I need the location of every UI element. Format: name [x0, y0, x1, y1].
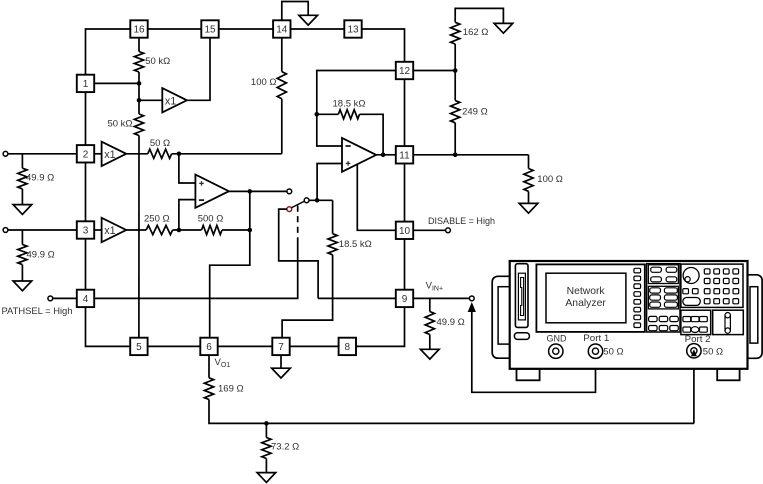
wire pin6 to 169ohm — [208, 355, 210, 378]
wire top-left corner: pin 1 bus to pin 16 — [86, 29, 131, 75]
svg-text:100 Ω: 100 Ω — [537, 174, 563, 185]
ground (100ohm load) — [519, 203, 538, 213]
wire feedback right to output — [360, 114, 384, 155]
button below floppy — [514, 333, 529, 340]
svg-text:Port 2: Port 2 — [685, 334, 711, 344]
node J (249/pin11) — [453, 153, 458, 158]
wire 100ohm load riser — [528, 155, 530, 169]
wire 73.2 stems — [265, 423, 267, 472]
wire left bus pin3-pin4 — [85, 239, 87, 290]
svg-text:x1: x1 — [104, 149, 115, 161]
wire pin7 to ground — [280, 355, 282, 368]
svg-text:16: 16 — [133, 25, 145, 36]
wire right bus pin12-pin11 — [404, 79, 406, 146]
wire pole to 18.5k corner — [309, 199, 333, 201]
switch linkage dashed — [297, 206, 299, 239]
label 50ohm — [150, 138, 170, 149]
svg-text:49.9 Ω: 49.9 Ω — [26, 173, 54, 184]
knob — [683, 268, 699, 284]
label PATHSEL = High — [2, 306, 73, 317]
svg-text:50 Ω: 50 Ω — [703, 346, 723, 357]
label 18.5kohm feedback — [333, 98, 366, 109]
pin box 8 — [339, 338, 356, 355]
wire 100ohm to pin14 — [281, 38, 283, 72]
resistor R 49.9ohm vin — [425, 312, 434, 335]
wire pin12 to node — [413, 70, 455, 72]
pin box 16 — [130, 20, 147, 37]
wire 50ohm to 100ohm corner — [172, 153, 282, 155]
pin box 4 — [77, 290, 94, 307]
left button column frame — [647, 264, 680, 332]
button group B frame — [648, 286, 678, 309]
network analyzer left foot — [517, 369, 540, 381]
label 18.5kohm lower — [339, 239, 372, 250]
wire 49.9 vin to ground — [429, 335, 431, 350]
pin box 7 — [272, 338, 289, 355]
buffer U2 x1 — [102, 142, 127, 166]
wire 100ohm load to ground — [528, 191, 530, 203]
svg-text:100 Ω: 100 Ω — [251, 77, 277, 88]
resistor R 249ohm — [451, 101, 460, 123]
svg-text:13: 13 — [347, 25, 359, 36]
terminal switch throw 1 (U4 out) — [287, 189, 292, 194]
Port 1 connector — [588, 344, 602, 358]
svg-text:12: 12 — [399, 66, 411, 77]
buffer U1 x1 — [162, 88, 187, 112]
wire pin6-pin7 — [218, 345, 273, 347]
wire node B to buffer U1 — [139, 99, 162, 101]
wire pin8 to pin9 — [356, 307, 405, 346]
wire right bus pin11-pin10 — [404, 164, 406, 222]
terminal input 2 — [3, 228, 8, 233]
wire input1 shunt branch — [21, 154, 23, 168]
network analyzer chassis — [510, 261, 748, 369]
wire 162ohm to node — [454, 44, 456, 71]
svg-text:18.5 kΩ: 18.5 kΩ — [333, 98, 366, 109]
node K (73.2 tap) — [264, 421, 269, 426]
wire left bus pin1-pin2 — [85, 92, 87, 145]
node pin12/162/249 junction — [453, 68, 458, 73]
GND connector — [549, 344, 563, 358]
svg-text:3: 3 — [83, 226, 89, 237]
network analyzer — [492, 261, 762, 380]
pin box 1 — [77, 75, 94, 92]
wire 18.5k lower to pin7 — [282, 255, 333, 338]
svg-text:6: 6 — [206, 342, 212, 353]
svg-text:PATHSEL = High: PATHSEL = High — [2, 306, 73, 317]
screen bezel — [536, 264, 644, 332]
node H (feedback tap) — [315, 112, 320, 117]
wire U4 out riser to pin6 — [210, 191, 250, 337]
wire pin3 to buffer U3 — [94, 229, 101, 231]
wire red throw to VIN+ row — [279, 209, 318, 298]
label DISABLE = High — [428, 216, 495, 227]
resistor R 169ohm — [204, 378, 213, 400]
svg-text:7: 7 — [278, 342, 284, 353]
pin box 6 — [200, 338, 217, 355]
switch pole circle — [304, 198, 309, 203]
op-amp U4 — [195, 175, 229, 208]
network analyzer right foot — [717, 369, 739, 381]
wire pin16 bottom — [138, 38, 140, 52]
wire node G up to U5 + — [317, 164, 342, 201]
resistor R 100ohm — [277, 72, 286, 99]
label 50kohm upper — [145, 56, 170, 67]
key grid rows 1-2 — [704, 269, 710, 274]
wire input2 shunt branch — [21, 230, 23, 245]
network analyzer right handle — [744, 275, 762, 359]
ground (73.2) — [257, 473, 276, 483]
network analyzer left handle — [492, 276, 514, 358]
wire 50k lower to pin5 — [138, 136, 140, 338]
wire 500ohm to node E — [222, 229, 250, 231]
wire pin13 to pin12 — [362, 29, 405, 62]
svg-text:x1: x1 — [104, 225, 115, 237]
svg-text:Port 1: Port 1 — [583, 333, 609, 343]
terminal PATHSEL — [48, 296, 53, 301]
wire 250-500 segment — [173, 229, 202, 231]
node A (pin1/50k) — [137, 81, 142, 86]
svg-text:249 Ω: 249 Ω — [462, 107, 488, 118]
terminal VIN+ — [469, 296, 474, 301]
svg-text:250 Ω: 250 Ω — [144, 213, 170, 224]
pin box 10 — [396, 222, 413, 239]
wire PATHSEL to pin4 — [53, 297, 77, 299]
svg-text:10: 10 — [399, 226, 411, 237]
svg-text:14: 14 — [276, 25, 288, 36]
resistor R 162ohm — [451, 22, 460, 44]
switch arm — [291, 201, 304, 208]
wire VIN+ row to pin9 — [318, 297, 396, 299]
label 100ohm load — [537, 174, 563, 185]
pin box 13 — [344, 20, 361, 37]
label 100ohm — [251, 77, 277, 88]
key grid row 3 — [683, 289, 689, 294]
terminal DISABLE — [446, 228, 451, 233]
Port 2 connector — [687, 344, 701, 358]
wire pin1 to node A — [94, 82, 139, 84]
wire right bus pin10-pin9 — [404, 239, 406, 290]
svg-text:50 kΩ: 50 kΩ — [107, 118, 132, 129]
softkey column — [634, 268, 641, 273]
wire node A to node B — [138, 83, 140, 100]
svg-text:169 Ω: 169 Ω — [218, 384, 244, 395]
svg-text:50 kΩ: 50 kΩ — [145, 56, 170, 67]
resistor R 500ohm — [202, 225, 223, 234]
label VO1 — [215, 357, 231, 369]
wire 18.5k lower riser — [332, 200, 334, 233]
floppy drive — [515, 264, 528, 328]
resistor R 49.9ohm input1 — [18, 168, 27, 189]
wire node B to 50k lower — [138, 100, 140, 114]
resistor R 18.5kohm lower — [328, 234, 337, 255]
wire U2 out to 50ohm — [126, 153, 148, 155]
resistor R 73.2ohm — [262, 438, 271, 459]
svg-text:49.9 Ω: 49.9 Ω — [437, 317, 465, 328]
wire U4 - input — [179, 200, 196, 230]
wire VIN+ to port1 — [472, 311, 596, 392]
op-amp U5 — [342, 138, 376, 172]
resistor R 49.9ohm input2 — [18, 245, 27, 265]
ground (top right) — [494, 23, 513, 33]
ground (top center) — [299, 15, 318, 25]
button group C — [649, 316, 658, 321]
buffer U3 x1 — [102, 218, 127, 242]
label 249ohm — [462, 107, 488, 118]
wire pin4 to pin5 — [86, 307, 131, 346]
wire pin15-pin14 — [219, 28, 273, 30]
svg-text:4: 4 — [83, 294, 89, 305]
wire 100ohm riser — [281, 99, 283, 154]
svg-text:50 Ω: 50 Ω — [150, 138, 170, 149]
pin box 15 — [201, 20, 218, 37]
wire pin14 to ground — [282, 2, 308, 21]
wire linkage to pin4 row — [94, 238, 298, 298]
wire 49.9-2 to ground — [21, 265, 23, 281]
wire U5 out to pin11 — [376, 154, 396, 156]
display — [546, 273, 626, 323]
svg-text:73.2 Ω: 73.2 Ω — [271, 442, 299, 453]
svg-text:x1: x1 — [165, 95, 176, 107]
svg-text:Analyzer: Analyzer — [565, 297, 606, 309]
label 49.9ohm vin — [437, 317, 465, 328]
key grid row 4 with oval — [683, 298, 701, 306]
svg-text:49.9 Ω: 49.9 Ω — [27, 250, 55, 261]
wire 49.9 vin branch — [429, 298, 431, 311]
node D (250/500/U4-) — [177, 228, 182, 233]
node I (U5 out) — [381, 153, 386, 158]
wire 162ohm top to ground — [455, 8, 503, 23]
bottom mid key block — [681, 310, 711, 334]
svg-text:50 Ω: 50 Ω — [603, 346, 623, 357]
ground (input2) — [13, 281, 32, 291]
svg-text:18.5 kΩ: 18.5 kΩ — [339, 239, 372, 250]
wire U4 output to switch terminal — [229, 190, 287, 192]
wire buffer U1 out to pin15 — [187, 38, 210, 101]
terminal input 1 — [3, 151, 8, 156]
label 50kohm lower — [107, 118, 132, 129]
wire left bus pin2-pin3 — [85, 163, 87, 222]
svg-text:15: 15 — [204, 25, 216, 36]
svg-text:162 Ω: 162 Ω — [463, 27, 489, 38]
resistor R 50ohm — [148, 149, 172, 158]
wire pin14-pin13 — [291, 28, 345, 30]
svg-text:500 Ω: 500 Ω — [198, 213, 224, 224]
bottom right block with lever — [713, 310, 744, 334]
arrow into VIN+ terminal — [468, 302, 476, 312]
wire feedback left stub — [317, 113, 339, 115]
wire 169ohm to port2 row — [209, 400, 694, 424]
pin box 5 — [130, 338, 147, 355]
svg-text:2: 2 — [83, 149, 89, 160]
wire 50k to node A — [138, 72, 140, 83]
right key block frame — [681, 264, 743, 307]
wire 249ohm stems — [454, 71, 456, 155]
label 49.9ohm input2 — [27, 250, 55, 261]
ground (49.9 vin) — [421, 349, 440, 359]
pin box 2 — [77, 145, 94, 162]
wire U3 out to 250ohm — [126, 229, 146, 231]
svg-text:1: 1 — [83, 79, 89, 90]
svg-text:11: 11 — [399, 150, 410, 161]
wire input2 to pin3 — [8, 229, 77, 231]
pin box 12 — [396, 62, 413, 79]
wire pin5-pin6 — [148, 345, 201, 347]
node G (pole/U5+) — [315, 198, 320, 203]
svg-text:9: 9 — [402, 294, 408, 305]
resistor R 250ohm — [146, 225, 172, 234]
resistor R 100ohm load — [524, 169, 533, 192]
pin box 14 — [273, 20, 290, 37]
wire pin2 to buffer U2 — [94, 153, 101, 155]
wire pin10 to DISABLE terminal — [413, 229, 445, 231]
svg-text:5: 5 — [136, 342, 142, 353]
wire node C down to U4 + — [179, 154, 196, 183]
wire pin7-pin8 — [290, 345, 339, 347]
node E (500/output riser) — [248, 228, 253, 233]
svg-text:GND: GND — [547, 334, 567, 344]
label 500ohm — [198, 213, 224, 224]
wire U5 enable to pin10 — [357, 164, 396, 230]
resistor R 50kohm upper — [134, 52, 143, 73]
wire input1 to pin2 — [8, 153, 77, 155]
svg-text:8: 8 — [345, 342, 351, 353]
svg-text:DISABLE = High: DISABLE = High — [428, 216, 495, 227]
pin box 3 — [77, 221, 94, 238]
wire pin9 to VIN+ terminal — [413, 297, 469, 299]
ground (pin7) — [272, 368, 291, 378]
pin box 9 — [396, 290, 413, 307]
ground (input1) — [13, 205, 32, 215]
terminal switch throw 2 (red) — [287, 207, 292, 212]
pin box 11 — [396, 146, 413, 163]
resistor R 50kohm lower — [134, 114, 143, 136]
node C (50ohm/op-amp U4 +) — [177, 152, 182, 157]
node B (buffer U1 input) — [137, 98, 142, 103]
label VIN+ — [426, 281, 443, 293]
arrow into Port 2 — [691, 349, 697, 356]
node F (U4 out) — [248, 189, 253, 194]
label 169ohm — [218, 384, 244, 395]
wire U5 - input net — [317, 71, 396, 147]
wire 49.9-1 to ground — [21, 189, 23, 205]
wire port2 riser — [693, 352, 695, 423]
button group A frame — [648, 265, 678, 284]
svg-text:Network: Network — [567, 285, 606, 297]
resistor R 18.5kohm feedback — [338, 110, 359, 119]
wire pin11 to 100ohm load — [413, 154, 528, 156]
label 162ohm — [463, 27, 489, 38]
label 73.2ohm — [271, 442, 299, 453]
label 250ohm — [144, 213, 170, 224]
wire pin16-pin15 — [148, 28, 202, 30]
label 49.9ohm input1 — [26, 173, 54, 184]
